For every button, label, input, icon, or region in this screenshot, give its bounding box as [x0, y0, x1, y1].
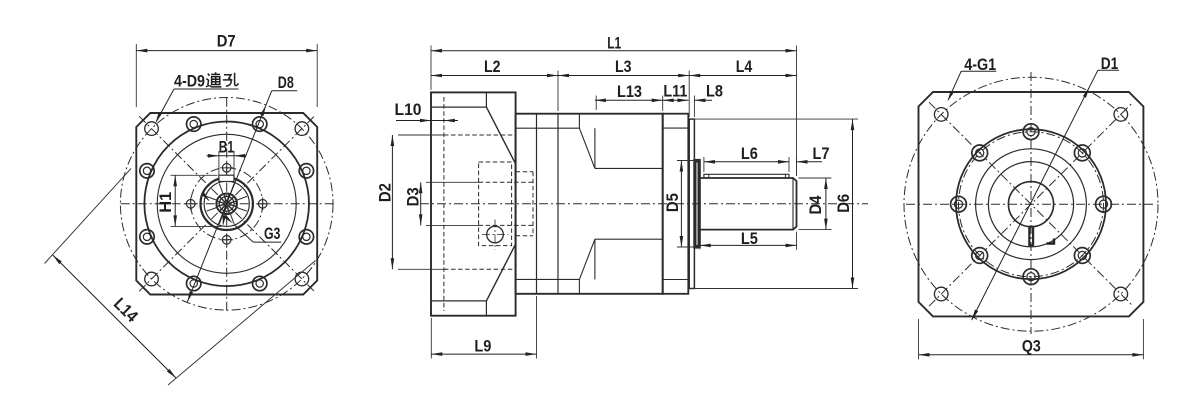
ext lines D2: [398, 134, 446, 136]
hidden collar bore lines: [516, 171, 533, 173]
dimension D7 extension lines: [135, 44, 137, 107]
right key mark: [1047, 239, 1055, 244]
dimension H1: [174, 175, 176, 226]
svg-text:H1: H1: [156, 192, 175, 213]
right corner hole G1 #2: [1114, 108, 1128, 122]
right diagonal centerline TL-BR: [929, 102, 1133, 306]
input hub outer circle: [216, 194, 237, 215]
cone start edge top: [578, 114, 580, 129]
svg-text:D5: D5: [663, 193, 682, 212]
svg-text:D2: D2: [376, 183, 395, 202]
dimension B1 extension lines: [218, 151, 220, 176]
hidden bore D3 lines: [479, 181, 534, 183]
keyway slot B1: [219, 175, 234, 181]
internal bore lines: [595, 167, 663, 169]
8 bolt holes: [299, 230, 313, 244]
right diagonal centerline BL-TR: [929, 102, 1133, 306]
4 small screw holes G3: [258, 200, 267, 209]
svg-text:L11: L11: [663, 82, 687, 101]
dimension L14 extension line upper: [45, 169, 132, 264]
right keyway slot: [1029, 227, 1033, 246]
input hub inner circle: [219, 196, 234, 211]
corner hole pitch circle (dash-dot): [120, 98, 333, 311]
vertical centerline: [226, 98, 228, 311]
plug hole on flange: [487, 226, 504, 243]
right bolt pitch circle (dash-dot): [959, 132, 1104, 277]
svg-text:D3: D3: [404, 187, 423, 206]
svg-text:L5: L5: [741, 229, 758, 248]
flange face line top: [431, 106, 486, 108]
svg-text:G3: G3: [264, 224, 281, 243]
gear housing outline: [516, 114, 663, 294]
housing shoulder lines: [516, 127, 580, 129]
dimension Q3: [919, 354, 1144, 356]
ext line L7: [796, 157, 798, 176]
ext lines D6: [692, 118, 858, 120]
svg-text:L3: L3: [615, 57, 632, 76]
dimension L8: [694, 99, 712, 101]
dimension L3: [558, 75, 689, 77]
svg-text:L2: L2: [484, 57, 501, 76]
dimension D3: [420, 182, 422, 225]
right outer circle: [956, 129, 1106, 279]
dimension D7: [136, 50, 317, 52]
svg-text:4-D9: 4-D9: [174, 71, 205, 90]
leader arrow at bore bottom: [223, 213, 224, 224]
right circle 2: [976, 149, 1087, 260]
svg-text:D8: D8: [278, 73, 294, 92]
dimension L11: [663, 99, 689, 101]
dimension L14 extension line lower: [168, 261, 316, 386]
svg-text:D6: D6: [834, 194, 853, 213]
right vertical centerline: [1030, 72, 1032, 334]
corner hole D9 #3: [145, 272, 159, 286]
hub spline spokes: [229, 204, 236, 206]
dimension L5: [700, 244, 797, 246]
svg-text:L4: L4: [736, 57, 753, 76]
side view mounting flange outline: [431, 92, 516, 315]
ext lines D4: [799, 177, 832, 179]
dimension L10: [396, 120, 458, 122]
corner hole D9 #4: [295, 272, 309, 286]
ext lines L2 L3 L4 row: [557, 71, 559, 112]
horizontal centerline: [121, 203, 334, 205]
ext lines Q3: [918, 319, 920, 359]
hidden bore D2 lines: [444, 134, 514, 136]
internal cone bottom: [579, 239, 595, 279]
dimension L13: [595, 99, 663, 101]
right corner-hole pitch circle (dash-dot): [904, 77, 1158, 331]
svg-text:L7: L7: [813, 144, 830, 163]
ext lines L9: [430, 318, 432, 359]
shaft key: [704, 174, 789, 178]
svg-text:L6: L6: [741, 144, 758, 163]
middle centerline: [420, 203, 868, 205]
flange face line bottom: [431, 300, 486, 302]
output face ring: [663, 114, 689, 294]
right horizontal centerline: [906, 203, 1156, 205]
leader arrow at hub: [203, 193, 209, 200]
cone start edge bottom: [578, 279, 580, 293]
right corner hole G1 #4: [1114, 287, 1128, 301]
dimension L4: [689, 75, 796, 77]
flange chamfer cone top: [486, 107, 515, 164]
output washer ring: [689, 119, 694, 288]
flange chamfer cone bottom: [486, 244, 515, 301]
dimension D5: [680, 161, 682, 248]
ext line L5: [796, 232, 798, 250]
svg-text:L14: L14: [110, 294, 142, 326]
collar ring line 2: [557, 114, 559, 294]
dimension L6: [704, 161, 789, 163]
center bore circle: [204, 181, 249, 226]
svg-text:L9: L9: [474, 336, 491, 355]
diagonal centerline TL-BR: [139, 116, 314, 291]
internal cone top: [579, 128, 595, 168]
small-hole pitch circle (dash-dot): [191, 168, 263, 240]
right corner hole G1 #1: [934, 108, 948, 122]
radial spokes: [237, 208, 247, 212]
dimension L9: [431, 353, 536, 355]
right bore circle: [1008, 182, 1053, 227]
dimension D2: [391, 135, 393, 269]
dimension D6: [852, 119, 854, 288]
right corner hole G1 #3: [934, 287, 948, 301]
dimension L7: [797, 161, 823, 163]
right 8 bolt holes: [1096, 196, 1112, 212]
dimension L2: [431, 75, 558, 77]
output boss ring (dark): [694, 160, 699, 248]
dimension L1: [431, 50, 797, 52]
center boss circle (heavy): [201, 178, 253, 230]
svg-text:L10: L10: [395, 100, 422, 119]
svg-text:D4: D4: [806, 195, 825, 214]
svg-text:B1: B1: [219, 138, 234, 157]
svg-text:L1: L1: [607, 34, 621, 53]
inner flange circle: [157, 134, 296, 273]
collar ring line 1: [536, 114, 538, 294]
hidden recess rectangle: [479, 162, 512, 246]
svg-text:D7: D7: [217, 31, 236, 50]
ext lines D3: [426, 181, 480, 183]
corner hole D9 #2: [295, 122, 309, 136]
outer flange circle: [144, 122, 309, 287]
svg-text:Q3: Q3: [1022, 336, 1041, 355]
right view flange plate outline: [919, 92, 1144, 316]
dimension D4: [825, 178, 827, 230]
corner hole D9 #1: [145, 122, 159, 136]
dimension H1 extension lines: [171, 174, 218, 176]
hidden line counterbore depth: [443, 97, 445, 311]
output pilot lines: [663, 127, 689, 129]
dimension B1: [207, 155, 247, 157]
ext lines L1 row: [430, 46, 432, 91]
dimension L14: [53, 255, 176, 378]
left view flange plate outline: [136, 113, 317, 295]
ext lines L13 L11 L8 row: [595, 96, 597, 111]
ext lines D5: [677, 160, 694, 162]
svg-text:L8: L8: [706, 82, 723, 101]
ext lines L6: [703, 157, 705, 172]
output shaft: [700, 178, 797, 230]
svg-text:L13: L13: [617, 82, 642, 101]
right circle 3: [988, 162, 1073, 247]
diagonal centerline BL-TR: [139, 116, 314, 291]
